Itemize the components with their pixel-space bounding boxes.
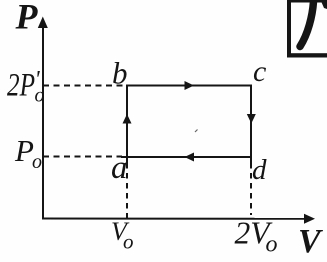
svg-text:b: b xyxy=(112,56,128,91)
x-axis arrowhead xyxy=(304,214,315,224)
box bottom border xyxy=(287,53,327,57)
partial letter P stem inside box xyxy=(300,2,314,47)
arrow down on c-d xyxy=(247,114,256,124)
cycle top edge b-c xyxy=(126,85,251,87)
dashed line V_o vertical xyxy=(126,163,128,222)
svg-text:o: o xyxy=(123,230,134,254)
dashed line P_o level xyxy=(43,156,122,158)
box left border xyxy=(287,0,291,57)
svg-text:P: P xyxy=(15,0,39,37)
cycle right edge c-d xyxy=(250,85,252,164)
y-axis (P axis) xyxy=(42,24,44,219)
y-axis arrowhead xyxy=(38,17,48,29)
arrow up on a-b xyxy=(123,114,132,124)
dashed line 2P_o level xyxy=(43,85,127,87)
cycle left edge a-b xyxy=(126,86,128,164)
dashed line 2V_o vertical xyxy=(250,163,252,215)
partial letter P bowl fragment at corner xyxy=(321,0,327,9)
stray speck xyxy=(195,130,198,133)
svg-text:V: V xyxy=(298,223,323,260)
svg-text:c: c xyxy=(253,55,266,88)
svg-text:d: d xyxy=(252,154,267,186)
svg-text:P: P xyxy=(14,133,34,168)
box top border xyxy=(290,0,327,3)
x-axis (V axis) xyxy=(42,218,307,220)
arrow left on d-a xyxy=(185,153,195,162)
cycle bottom edge d-a xyxy=(121,156,251,158)
svg-text:o: o xyxy=(35,85,45,107)
svg-text:o: o xyxy=(32,151,42,173)
arrow right on b-c xyxy=(185,81,195,90)
svg-text:2P: 2P xyxy=(7,68,35,104)
answer-choice box (top-right, cut off) xyxy=(287,0,327,58)
svg-text:a: a xyxy=(111,150,128,186)
svg-text:o: o xyxy=(266,232,278,258)
